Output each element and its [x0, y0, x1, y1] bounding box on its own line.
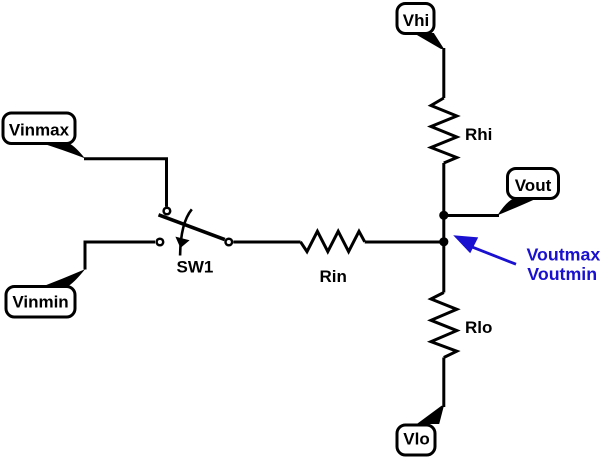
svg-text:Voutmax: Voutmax [527, 244, 600, 264]
wire node to Vout flag [444, 214, 499, 217]
flag Vlo [397, 406, 444, 455]
switch motion arc [180, 209, 192, 255]
svg-text:Vout: Vout [515, 176, 552, 195]
resistor Rhi [431, 98, 492, 163]
flag Vinmax [3, 113, 85, 158]
wire Vhi to Rhi [442, 48, 445, 98]
wire switch right terminal to Rin [233, 241, 300, 244]
svg-text:Vlo: Vlo [403, 430, 429, 449]
resistor Rlo [431, 293, 492, 358]
switch blade [159, 215, 225, 240]
flag Vhi [397, 4, 444, 50]
svg-text:SW1: SW1 [177, 257, 214, 276]
flag Vout [498, 169, 559, 216]
wire Vinmax to switch top terminal [84, 159, 167, 207]
svg-text:Rhi: Rhi [465, 125, 492, 144]
annotation arrow Voutmax/Voutmin [453, 235, 516, 264]
node output junction [439, 237, 448, 246]
node Vout junction [439, 211, 448, 220]
svg-text:Vinmax: Vinmax [9, 121, 70, 140]
switch SW1 [157, 208, 233, 277]
svg-text:Rlo: Rlo [465, 318, 492, 337]
switch left terminal [157, 239, 164, 246]
wire Rlo to Vlo [442, 358, 445, 408]
switch right terminal [226, 239, 233, 246]
svg-text:Rin: Rin [320, 267, 347, 286]
svg-text:Vinmin: Vinmin [12, 293, 68, 312]
resistor Rin [301, 231, 365, 285]
wire Rin to output node [365, 241, 444, 244]
wire Vout node to lower node [442, 216, 445, 243]
flag Vinmin [6, 269, 85, 317]
wire Rhi to Vout node [442, 163, 445, 216]
svg-text:Vhi: Vhi [403, 11, 429, 30]
svg-text:Voutmin: Voutmin [527, 264, 597, 284]
wire node to Rlo [442, 242, 445, 293]
switch top terminal [164, 208, 171, 215]
wire Vinmin to switch left terminal [85, 242, 155, 270]
